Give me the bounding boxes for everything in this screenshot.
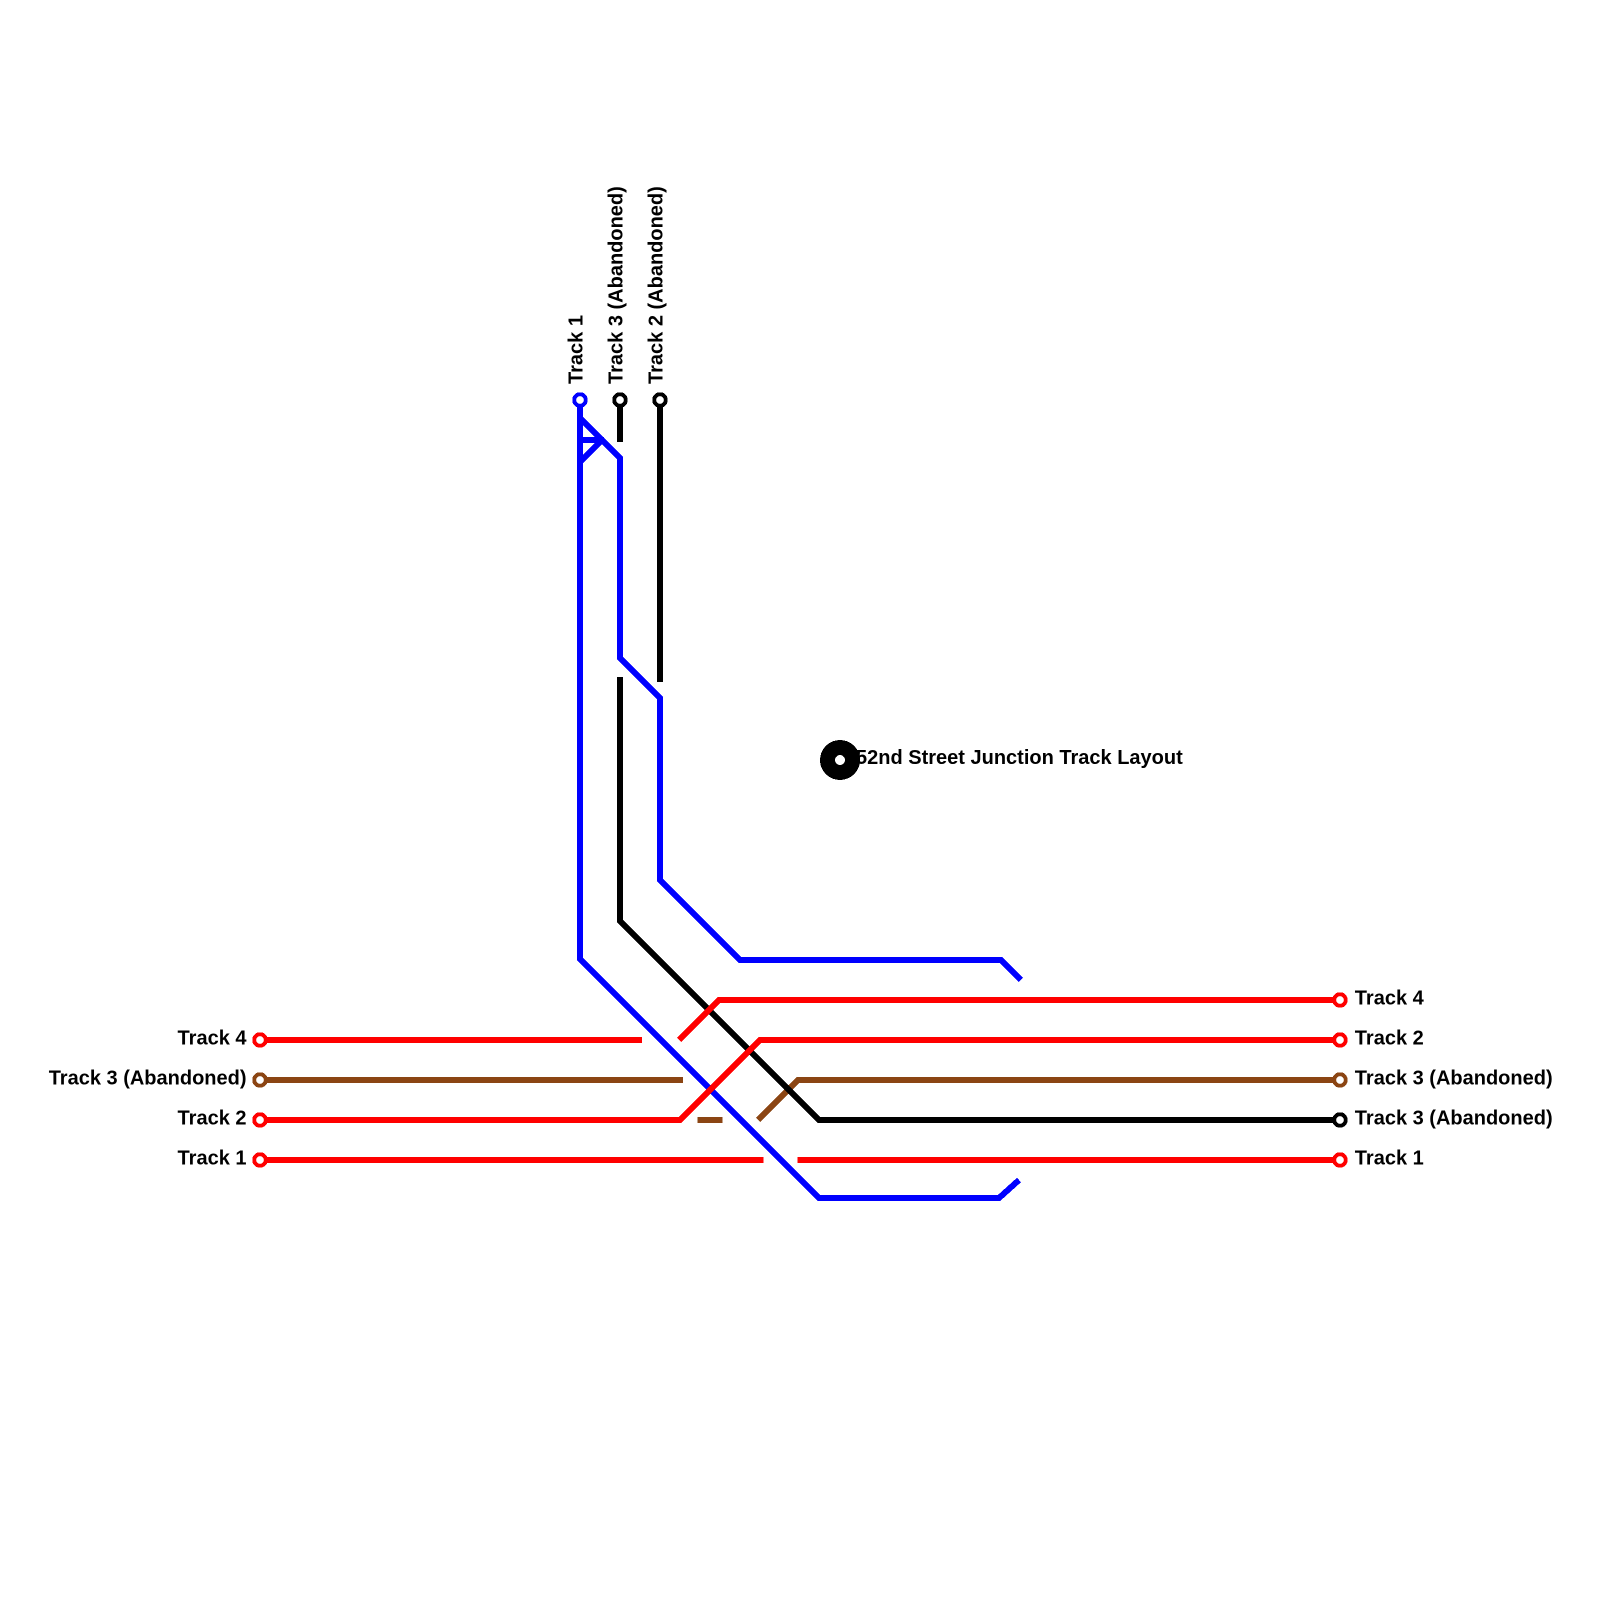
wire red Track 1 left horizontal	[260, 1157, 764, 1163]
wire red Track 1 right horizontal	[798, 1157, 1333, 1163]
node terminal blue Track 1 top	[574, 394, 586, 406]
wire blue switch lower diagonal	[580, 440, 602, 462]
wire blue Track 1 branch via switch	[580, 418, 1021, 980]
wire red Track 4 left horizontal	[260, 1037, 642, 1043]
wire brown Track 3 (Abandoned) middle dash	[698, 1117, 723, 1123]
node terminal black Track 3 (Abandoned) top	[614, 394, 626, 406]
node terminal red Track 4 left	[254, 1034, 266, 1046]
svg-text:Track 4: Track 4	[178, 1028, 248, 1050]
svg-text:Track 2: Track 2	[178, 1108, 247, 1130]
wire black Track 3 (Abandoned) main diagonal to right	[620, 677, 1333, 1120]
node terminal brown Track 3 (Abandoned) left	[254, 1074, 266, 1086]
wire red Track 2 left horizontal diagonal and right horizontal	[260, 1040, 1333, 1120]
wire blue Track 1 main line	[580, 400, 1019, 1198]
node terminal red Track 2 right	[1334, 1034, 1346, 1046]
wire blue switch bar	[580, 437, 604, 443]
wire black Track 2 (Abandoned) top line	[657, 400, 663, 682]
node terminal black Track 2 (Abandoned) top	[654, 394, 666, 406]
svg-text:Track 3 (Abandoned): Track 3 (Abandoned)	[606, 186, 628, 384]
svg-text:Track 3 (Abandoned): Track 3 (Abandoned)	[1355, 1068, 1553, 1090]
wire black Track 3 (Abandoned) top stub	[617, 400, 623, 442]
svg-text:Track 2: Track 2	[1355, 1028, 1424, 1050]
node terminal red Track 1 right	[1334, 1154, 1346, 1166]
wire red Track 4 diagonal and right horizontal	[679, 1000, 1333, 1040]
svg-text:52nd Street Junction Track Lay: 52nd Street Junction Track Layout	[856, 747, 1183, 769]
svg-text:Track 3 (Abandoned): Track 3 (Abandoned)	[49, 1068, 247, 1090]
svg-text:Track 1: Track 1	[1355, 1148, 1424, 1170]
svg-text:Track 1: Track 1	[178, 1148, 247, 1170]
node terminal black Track 3 (Abandoned) right	[1334, 1114, 1346, 1126]
wire brown Track 3 (Abandoned) right diagonal and horizontal	[758, 1080, 1333, 1120]
svg-text:Track 4: Track 4	[1355, 988, 1425, 1010]
node terminal red Track 4 right	[1334, 994, 1346, 1006]
svg-text:Track 1: Track 1	[566, 315, 588, 384]
node terminal brown Track 3 (Abandoned) right	[1334, 1074, 1346, 1086]
node title station disc	[820, 740, 860, 780]
node terminal red Track 1 left	[254, 1154, 266, 1166]
svg-text:Track 2 (Abandoned): Track 2 (Abandoned)	[646, 186, 668, 384]
svg-text:Track 3 (Abandoned): Track 3 (Abandoned)	[1355, 1108, 1553, 1130]
wire brown Track 3 (Abandoned) left horizontal	[260, 1077, 683, 1083]
node terminal red Track 2 left	[254, 1114, 266, 1126]
